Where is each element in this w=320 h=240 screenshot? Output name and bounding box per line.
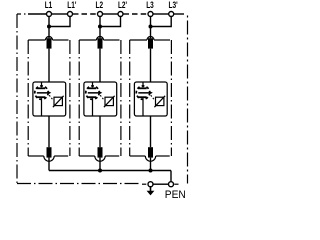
wire top entry dash-dot at left [17,13,28,15]
spark gap connector top 2 [92,82,94,87]
enclosure border right side [187,16,189,184]
spark gap connector bottom 2 [92,98,94,116]
spark gap box 3 [134,82,167,116]
wire bus drop to PEN [170,171,172,182]
disconnect square 3 [156,97,164,105]
wire terminal to spark gap box 1 [48,49,50,82]
wire L1 to L1' [52,13,68,15]
terminal L3' [169,12,174,17]
spark gap connector bottom 1 [41,98,43,116]
disconnect slash 3 [154,96,165,107]
svg-text:L3': L3' [169,0,178,10]
terminal L1' [68,12,73,17]
terminal L1 [47,12,52,17]
svg-text:L3: L3 [146,0,154,10]
terminal L2' [118,12,123,17]
bottom terminal block phase 1 [47,147,52,157]
spark gap box 2 [84,82,117,116]
module 1 surge arrester [28,37,70,171]
svg-text:L1: L1 [45,0,53,10]
disconnect slash 2 [104,96,115,107]
spark gap connector top 3 [142,82,144,87]
module 3 dashed outline left [129,40,131,156]
wire dashed L2' to L3 [123,13,129,15]
svg-text:PEN: PEN [165,188,186,200]
terminal PEN [169,182,174,187]
module 1 dashed outline right [69,40,71,156]
spark gap electrode upper 1 [37,87,46,89]
wire junction to top terminal phase 2 [99,27,101,39]
spark gap connector bottom 3 [142,98,144,116]
bus common earth wire [49,170,171,172]
wire L3 drop [150,17,152,27]
wire junction to top terminal phase 1 [48,27,50,39]
top terminal block phase 3 [148,38,153,48]
spark gap electrode lower 3 [138,96,147,98]
wire dashed L1' to L2 [73,13,79,15]
trigger arrow 1 [37,92,48,94]
wire earth to PEN terminal [153,183,169,185]
wire L1 drop [48,17,50,27]
disconnect square 2 [105,97,113,105]
spark gap dashed circle 2 [86,86,99,99]
spark gap box 1 [33,82,66,116]
svg-text:L2': L2' [118,0,127,10]
module 2 surge arrester [79,37,121,171]
wire dash left of earth terminal [142,183,146,185]
wire L2 to L2' [103,13,119,15]
dashed trail 3 [151,95,155,100]
wire after L3' [174,13,184,15]
dashed trail 1 [49,95,53,100]
node junction phase 1 [47,25,51,29]
top terminal block phase 2 [98,38,103,48]
module 3 surge arrester [130,37,172,171]
wire L2' drop and link [100,17,121,27]
enclosure border left side [16,14,18,184]
wire box to bottom terminal 2 [99,116,101,147]
enclosure border bottom side [17,183,141,185]
node bus phase 2 [98,169,102,173]
dashed trail 2 [100,95,104,100]
wire into L1 [28,13,47,15]
wire bottom terminal to bus 1 [48,158,50,171]
spark gap electrode upper 3 [138,87,147,89]
wire terminal to spark gap box 3 [150,49,152,82]
spark gap connector top 1 [41,82,43,87]
wire L3' drop and link [151,17,172,27]
wire dash right of PEN terminal [174,183,178,185]
top terminal block phase 1 [47,38,52,48]
wire bottom terminal to bus 3 [150,158,152,171]
module 2 dashed outline right [120,40,122,156]
node junction phase 2 [98,25,102,29]
module 2 dashed outline left [78,40,80,156]
wire L2 drop [99,17,101,27]
wire box to bottom terminal 1 [48,116,50,147]
svg-text:L2: L2 [96,0,104,10]
wire L1' drop and link [49,17,70,27]
wire junction to top terminal phase 3 [150,27,152,39]
spark gap electrode lower 2 [88,96,97,98]
module 2 outline top with hop [79,39,96,41]
node bus phase 3 [149,169,153,173]
disconnect square 1 [54,97,62,105]
bottom terminal block phase 2 [98,147,103,157]
disconnect slash 1 [53,96,64,107]
wire box to bottom terminal 3 [150,116,152,147]
trigger arrow 2 [88,92,99,94]
module 1 dashed outline left [27,40,29,156]
module 2 outline bottom with hop [79,155,95,157]
ground arrow [150,186,152,191]
terminal earth connection [148,182,153,187]
spark gap electrode lower 1 [37,96,46,98]
module 3 dashed outline right [170,40,172,156]
module 3 outline bottom with hop [130,155,146,157]
module 3 outline top with hop [130,39,147,41]
wire terminal to spark gap box 2 [99,49,101,82]
terminal L3 [148,12,153,17]
spark gap electrode upper 2 [88,87,97,89]
module 1 outline bottom with hop [28,155,44,157]
wire L3 to L3' [153,13,169,15]
node junction phase 3 [149,25,153,29]
spark gap dashed circle 3 [136,86,149,99]
spark gap dashed circle 1 [35,86,48,99]
module 1 outline top with hop [28,39,45,41]
trigger arrow 3 [138,92,149,94]
terminal L2 [98,12,103,17]
svg-text:L1': L1' [67,0,76,10]
wire bottom terminal to bus 2 [99,158,101,171]
bottom terminal block phase 3 [148,147,153,157]
